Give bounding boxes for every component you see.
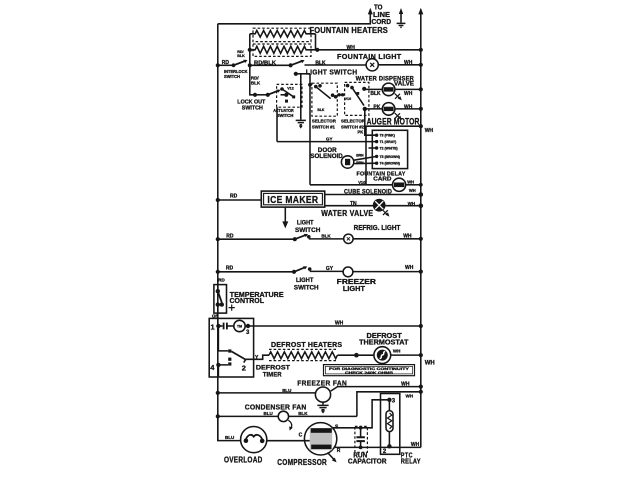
label: DEFROST TIMER — [256, 364, 290, 378]
wire: ice maker light feed arrow — [282, 207, 288, 228]
diagnostic note box — [324, 365, 415, 376]
wire: left supply trunk (RD) — [217, 24, 219, 441]
switch: selector switch 2 contacts — [346, 84, 364, 106]
svg-text:RD: RD — [226, 265, 234, 271]
svg-text:CAPACITOR: CAPACITOR — [348, 458, 387, 465]
wire: drop to chassis ground — [300, 74, 302, 120]
svg-text:T5 (BROWN): T5 (BROWN) — [380, 155, 400, 159]
ground: line cord chassis ground — [397, 8, 406, 27]
wire: condenser fan return riser — [357, 390, 423, 417]
node: timer terminal 4 — [216, 363, 228, 377]
svg-text:CUBE SOLENOID: CUBE SOLENOID — [344, 189, 392, 195]
wire: heater output to thermostat — [338, 353, 374, 358]
wire: WH freezer light to right trunk — [353, 270, 423, 274]
svg-text:TO: TO — [374, 5, 383, 12]
ice maker box — [261, 191, 324, 207]
wire: RD refrigerator light line — [216, 237, 297, 241]
wire: top feed line to line cord — [218, 8, 373, 24]
solenoid: water dispenser valve coil 2 — [382, 103, 395, 116]
svg-text:SWITCH: SWITCH — [294, 284, 319, 291]
svg-text:CONDENSER FAN: CONDENSER FAN — [245, 402, 307, 411]
switch: temperature control contacts — [216, 289, 224, 313]
svg-text:T2 (WHITE): T2 (WHITE) — [380, 146, 398, 150]
svg-text:FREEZER: FREEZER — [337, 279, 376, 286]
svg-text:BRN: BRN — [356, 161, 364, 165]
svg-text:AUGER MOTOR: AUGER MOTOR — [367, 116, 420, 126]
actuator switch dashed box — [277, 84, 302, 107]
svg-text:WH: WH — [404, 104, 413, 110]
svg-text:LINE: LINE — [373, 12, 390, 19]
wire: BLK to dispenser valve 1 — [362, 87, 382, 91]
svg-text:PK: PK — [358, 129, 364, 134]
wire: WH freezer fan to right trunk — [331, 385, 423, 392]
svg-text:WH: WH — [425, 128, 434, 134]
svg-text:2: 2 — [242, 363, 246, 372]
svg-text:WH: WH — [408, 201, 416, 206]
auger motor housing box — [366, 124, 423, 185]
label: SELECTOR SWITCH #1 — [312, 118, 337, 129]
thermostat: defrost thermostat — [374, 347, 391, 364]
svg-text:SELECTOR: SELECTOR — [341, 118, 366, 123]
wire: T2 stub — [369, 147, 377, 149]
wire: RD branch from left trunk — [216, 63, 236, 67]
wire: BLU feed to freezer fan — [216, 391, 316, 395]
switch: actuator switch contacts — [280, 87, 295, 102]
svg-text:BLK: BLK — [321, 234, 331, 239]
switch: lock out switch — [255, 90, 288, 97]
label: WATER DISPENSER VALVE — [356, 77, 415, 88]
switch: fountain light switch blade — [291, 60, 305, 65]
svg-text:LOCK OUT: LOCK OUT — [237, 99, 266, 105]
wire: WH refrig light to right trunk — [353, 237, 423, 241]
svg-text:WH: WH — [407, 179, 414, 184]
svg-text:OVERLOAD: OVERLOAD — [224, 455, 263, 464]
wire: WH valve 1 to right trunk — [395, 87, 423, 91]
terminal T2 (WHITE) — [375, 146, 398, 150]
svg-text:DEFROST: DEFROST — [256, 364, 290, 371]
fountain heaters dashed enclosure upper — [253, 28, 311, 41]
wire: BLK condenser fan to riser — [289, 415, 357, 417]
wire: TN line to water valve — [325, 205, 373, 207]
svg-text:BLK: BLK — [251, 81, 261, 86]
wire: WH line from heaters to right trunk — [315, 48, 423, 52]
label: FREEZER LIGHT — [337, 279, 376, 293]
wire: BLU feed to condenser fan — [216, 414, 279, 418]
svg-text:RELAY: RELAY — [401, 458, 421, 465]
svg-text:RD: RD — [226, 234, 234, 240]
wire: WH from fountain light to right trunk — [378, 63, 423, 67]
wire: WH delay card to right trunk — [406, 183, 423, 187]
ground: light switch ground — [296, 120, 306, 128]
wire: link between selector switches — [337, 93, 344, 96]
svg-text:TM: TM — [237, 324, 242, 328]
svg-text:BLU: BLU — [264, 411, 273, 416]
label: DOOR SOLENOID — [310, 148, 343, 160]
wire: BLK segment to fountain light — [305, 64, 367, 66]
svg-text:C: C — [299, 432, 303, 438]
label: TO LINE CORD — [372, 5, 392, 27]
svg-text:CARD: CARD — [373, 176, 391, 182]
svg-text:SOLENOID: SOLENOID — [310, 154, 343, 160]
label: RUN CAPACITOR — [348, 453, 387, 466]
svg-text:BRN: BRN — [356, 153, 364, 157]
defrost heater dashed sheath — [269, 349, 338, 360]
svg-text:T3 (PINK): T3 (PINK) — [380, 134, 395, 138]
svg-text:SWITCH: SWITCH — [276, 113, 293, 118]
svg-text:CHECK 240K OHMS: CHECK 240K OHMS — [345, 371, 394, 375]
svg-text:SELECTOR: SELECTOR — [312, 118, 337, 123]
svg-text:WH: WH — [403, 233, 412, 239]
svg-text:BLU: BLU — [282, 388, 291, 393]
svg-text:FOUNTAIN HEATERS: FOUNTAIN HEATERS — [310, 26, 389, 35]
terminal T5 (BROWN) — [375, 155, 400, 159]
wire: WH timer motor to right trunk — [248, 324, 423, 328]
switch: defrost timer cam blade — [228, 349, 246, 365]
terminal T1 (GRAY) — [375, 140, 396, 144]
lamp: freezer light — [343, 267, 353, 277]
svg-text:WH: WH — [406, 394, 414, 399]
svg-text:SWITCH: SWITCH — [295, 227, 321, 234]
svg-text:RD: RD — [218, 278, 225, 283]
resistor: PTC element — [386, 400, 393, 447]
svg-text:GY: GY — [326, 137, 333, 142]
label: TEMPERATURE CONTROL — [230, 292, 284, 305]
svg-text:BLK: BLK — [315, 60, 326, 66]
wire: heater right link — [315, 34, 317, 50]
wire: heater left bus — [248, 34, 252, 68]
node: PK junction at selector 2 output — [363, 107, 383, 111]
wire: BLK to refrig light — [309, 238, 344, 240]
svg-text:CORD: CORD — [372, 19, 392, 26]
node: timer terminal 3 — [246, 324, 250, 328]
svg-text:BLK: BLK — [298, 411, 308, 416]
label: RD/BLK vertical pair — [251, 76, 261, 86]
valve arrow symbol (water valve) — [383, 210, 390, 217]
temperature control box — [214, 285, 227, 314]
overload protector — [241, 427, 267, 453]
wire: GY to freezer light — [310, 270, 343, 272]
svg-text:WH: WH — [411, 442, 420, 448]
wire: WH water valve to right trunk — [386, 203, 424, 208]
wire: GY line from actuator to T1 — [277, 141, 377, 143]
label: RD/BLK at heater bus — [237, 50, 245, 58]
svg-text:T4 (BROWN): T4 (BROWN) — [380, 162, 400, 166]
svg-text:WH: WH — [405, 265, 414, 271]
wire: RD freezer light line — [216, 270, 296, 274]
capacitor: run capacitor — [356, 428, 365, 448]
svg-text:BLU: BLU — [225, 435, 234, 440]
svg-text:RD: RD — [230, 193, 238, 199]
svg-text:WH: WH — [409, 188, 416, 193]
label: DEFROST THERMOSTAT — [359, 333, 409, 346]
svg-text:COMPRESSOR: COMPRESSOR — [277, 458, 327, 467]
svg-text:LIGHT: LIGHT — [297, 220, 314, 227]
svg-text:LIGHT: LIGHT — [343, 286, 366, 293]
svg-text:THERMOSTAT: THERMOSTAT — [359, 339, 409, 346]
switch: refrigerator light switch — [295, 234, 311, 239]
svg-text:TN: TN — [350, 201, 357, 207]
solenoid: water valve (filled) — [373, 199, 386, 212]
label: FOUNTAIN DELAY CARD — [357, 172, 406, 183]
svg-text:R: R — [337, 448, 341, 454]
svg-text:LIGHT SWITCH: LIGHT SWITCH — [306, 68, 358, 77]
label: ACTUATOR SWITCH — [273, 108, 294, 118]
wire: WH thermostat to right trunk — [391, 353, 423, 357]
svg-text:WH: WH — [404, 91, 413, 97]
wire: right supply trunk (WH) with arrow to line cord — [418, 8, 423, 448]
lamp: fountain light — [366, 59, 378, 71]
svg-text:WH: WH — [401, 382, 410, 388]
PTC relay box — [381, 394, 400, 455]
svg-text:SWITCH: SWITCH — [224, 74, 240, 79]
svg-text:BLK: BLK — [370, 91, 381, 97]
svg-text:TIMER: TIMER — [263, 372, 282, 379]
motor: freezer fan — [315, 387, 330, 402]
svg-text:RD: RD — [222, 60, 230, 66]
svg-text:FOUNTAIN LIGHT: FOUNTAIN LIGHT — [337, 52, 402, 61]
valve arrow symbol 2 — [395, 113, 402, 120]
svg-text:T1 (GRAY): T1 (GRAY) — [380, 140, 397, 144]
wire: WH valve 2 to right trunk — [395, 107, 423, 111]
wire: RD/BLK segment to light switch — [250, 63, 293, 67]
node: timer terminal 1 — [216, 318, 220, 328]
wire: RD feed to ice maker — [216, 198, 262, 202]
wire: R line to right trunk — [334, 446, 421, 450]
wire: overload to compressor C — [267, 440, 310, 442]
ground: freezer fan ground — [317, 402, 328, 413]
compressor motor — [304, 423, 336, 455]
switch: freezer light switch — [294, 266, 312, 272]
label: INTERLOCK SWITCH — [224, 69, 248, 79]
valve arrow symbol 1 — [395, 94, 402, 101]
wire: Y output from timer — [246, 355, 269, 359]
wire: BLU trunk to overload — [218, 416, 241, 440]
label: LIGHT SWITCH (ice maker) — [295, 220, 321, 234]
svg-text:BLK: BLK — [237, 54, 245, 58]
svg-text:WH: WH — [347, 45, 356, 51]
svg-text:V10: V10 — [345, 97, 352, 101]
auger motor terminal block — [372, 130, 407, 168]
svg-text:SWITCH: SWITCH — [242, 106, 263, 112]
solenoid: fountain delay card coil — [393, 178, 406, 191]
label: SELECTOR SWITCH #2 — [341, 118, 366, 129]
svg-text:WH: WH — [335, 320, 344, 326]
svg-text:VALVE: VALVE — [394, 81, 414, 87]
label: BRN labels — [356, 153, 364, 164]
wire: S line to PTC relay terminal 3 — [333, 400, 390, 430]
wire: trunk inside timer to cam contact — [218, 326, 228, 351]
solenoid: door solenoid — [341, 156, 353, 168]
switch: selector switch 1 contacts — [314, 84, 337, 112]
svg-text:PK: PK — [373, 104, 380, 110]
label: LIGHT SWITCH (freezer) — [294, 277, 319, 292]
svg-text:WH: WH — [404, 60, 413, 66]
fountain heaters dashed enclosure lower — [253, 44, 311, 56]
node: light switch second pole — [294, 72, 310, 76]
timer motor TM — [234, 320, 245, 331]
wire: BRN pair to T5 and T4 — [354, 156, 377, 163]
condenser fan rotation arrow — [288, 420, 293, 430]
svg-text:V10: V10 — [358, 180, 366, 185]
wire: RD/BLK drop to lock out switch — [250, 65, 257, 97]
svg-text:V12: V12 — [287, 86, 294, 90]
svg-text:WH: WH — [393, 348, 401, 353]
svg-text:REFRIG. LIGHT: REFRIG. LIGHT — [354, 225, 401, 232]
compressor case ground arrow — [328, 453, 337, 463]
wire: actuator to GY line drop — [276, 107, 278, 141]
svg-text:CONTROL: CONTROL — [230, 298, 265, 305]
svg-text:RD/BLK: RD/BLK — [254, 60, 276, 66]
label: PTC RELAY — [401, 453, 421, 466]
svg-text:WATER VALVE: WATER VALVE — [321, 209, 373, 218]
run capacitor dashed box — [355, 426, 368, 452]
svg-text:OR: OR — [212, 313, 220, 318]
terminal T4 (BROWN) — [375, 162, 400, 166]
svg-text:GY: GY — [326, 266, 334, 272]
switch: interlock switch blade — [234, 60, 248, 66]
svg-text:1: 1 — [211, 323, 215, 332]
wire: PK drop to auger terminal T3 — [365, 109, 377, 135]
solenoid: water dispenser valve coil 1 — [382, 83, 395, 96]
wire: cube solenoid line — [325, 192, 423, 197]
svg-text:ICE MAKER: ICE MAKER — [267, 194, 318, 206]
temperature control adjust cross — [229, 305, 235, 311]
svg-text:WH: WH — [425, 360, 435, 366]
lamp: refrigerator light — [344, 234, 353, 243]
motor: condenser fan — [278, 411, 288, 421]
defrost timer box — [209, 318, 253, 377]
timer motor contact bars — [218, 323, 233, 330]
label: LOCK OUT SWITCH — [237, 99, 266, 111]
svg-text:DEFROST HEATERS: DEFROST HEATERS — [271, 342, 342, 349]
node: PTC terminal 2 — [387, 444, 391, 448]
svg-text:SWITCH #1: SWITCH #1 — [312, 124, 335, 129]
terminal T3 (PINK) — [375, 134, 395, 138]
resistor: defrost heaters zigzag — [269, 352, 337, 359]
node: PTC terminal 3 — [387, 398, 391, 402]
selector switch #1 dashed box — [312, 83, 337, 116]
selector switch #2 dashed box — [345, 82, 369, 115]
wire: V10 line to delay card solenoid — [310, 184, 393, 186]
wire: feed to fountain delay card (V10 riser) — [308, 74, 312, 185]
svg-text:LIGHT: LIGHT — [296, 277, 313, 284]
svg-text:BLK: BLK — [317, 108, 325, 112]
resistor: fountain heater upper zigzag — [250, 30, 316, 37]
resistor: fountain heater lower zigzag — [250, 46, 317, 53]
